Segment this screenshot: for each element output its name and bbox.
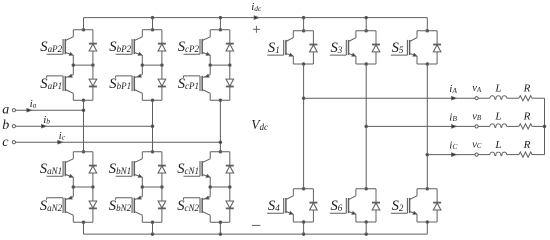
node v_C (open terminal) — [475, 153, 478, 156]
svg-text:S5: S5 — [392, 40, 404, 56]
current arrow i_c — [58, 141, 63, 144]
wire: cell SaP1 bottom branch join — [73, 99, 93, 101]
current arrow i_B — [452, 125, 457, 128]
svg-text:ic: ic — [59, 130, 66, 142]
junction on top rail at x=366.2 — [365, 16, 368, 19]
wire: leg S6 drop to bottom rail — [365, 222, 367, 234]
wire: resistor to neutral (phase A) — [532, 97, 545, 99]
wire: cell ScN2 bottom branch join — [210, 221, 230, 223]
wire: cell SbN2 bottom branch join — [142, 221, 162, 223]
diode of switch SaP1 — [89, 65, 97, 100]
junction: c N-cells mid right — [229, 186, 232, 189]
transistor SbP2 (IGBT) — [116, 30, 143, 65]
junction: phase B output tap — [365, 125, 368, 128]
transistor SbN2 (IGBT) — [116, 187, 143, 222]
wire: phase c vertical link — [219, 100, 221, 152]
node: leg b P-side bottom tee — [151, 99, 154, 102]
diode of switch SaN2 — [89, 187, 97, 222]
wire: cell S5 bottom branch join — [417, 63, 437, 65]
junction on bottom rail at x=152.5 — [151, 233, 154, 236]
svg-text:iA: iA — [449, 83, 457, 95]
svg-text:S4: S4 — [268, 198, 280, 214]
node: leg a bottom tee — [82, 221, 85, 224]
wire: phase C output line — [427, 154, 475, 156]
wire: leg c drop to bottom rail — [219, 222, 221, 234]
wire: C terminal to inductor — [478, 154, 490, 156]
transistor S6 (IGBT) — [330, 189, 356, 222]
wire: cell S4 bottom branch join — [293, 221, 313, 223]
junction: a P-cells mid left — [72, 64, 75, 67]
svg-text:iC: iC — [449, 140, 458, 152]
junction: a N-cells mid left — [72, 186, 75, 189]
svg-text:L: L — [494, 139, 501, 151]
svg-text:R: R — [523, 111, 531, 123]
svg-text:idc: idc — [251, 1, 262, 13]
label + (DC link positive) — [253, 26, 260, 33]
node: leg S3 top tee — [365, 29, 368, 32]
wire: leg S2 drop to bottom rail — [426, 222, 428, 234]
svg-text:SaP1: SaP1 — [40, 76, 62, 92]
wire: inductor to resistor (phase A) — [507, 97, 519, 99]
svg-text:vA: vA — [472, 83, 482, 94]
transistor ScN2 (IGBT) — [184, 187, 211, 222]
wire: leg S1 riser to top rail — [303, 18, 305, 31]
wire: leg S4 drop to bottom rail — [303, 222, 305, 234]
svg-text:ScN1: ScN1 — [177, 161, 199, 177]
diode of switch ScP1 — [226, 65, 234, 100]
wire: inductor to resistor (phase B) — [507, 125, 519, 127]
wire: cell ScP2 top branch split — [210, 29, 230, 31]
transistor SaN2 (IGBT) — [47, 187, 74, 222]
wire: leg c riser to top rail — [219, 18, 221, 30]
wire: leg b drop to bottom rail — [152, 222, 154, 234]
junction on bottom rail at x=220.4 — [219, 233, 222, 236]
label - (DC link negative) — [252, 224, 260, 226]
node: leg S1 bottom tee — [302, 63, 305, 66]
junction on bottom rail at x=366.2 — [365, 233, 368, 236]
svg-text:R: R — [523, 83, 531, 95]
wire: phase c input line — [16, 141, 221, 143]
wire: cell SaN1 bottom branch join — [73, 186, 93, 188]
wire: cell SaP2 top branch split — [73, 29, 93, 31]
node v_B (open terminal) — [475, 125, 478, 128]
transistor SbP1 (IGBT) — [116, 65, 143, 100]
svg-text:b: b — [2, 118, 9, 133]
wire: phase b vertical link — [152, 100, 154, 152]
junction: c N-cells mid left — [209, 186, 212, 189]
wire: cell ScP1 bottom branch join — [210, 99, 230, 101]
svg-text:S6: S6 — [331, 198, 343, 214]
node: leg S3 bottom tee — [365, 63, 368, 66]
diode of switch SbN1 — [158, 152, 166, 187]
transistor SbN1 (IGBT) — [116, 152, 143, 187]
inductor L (phase B) — [490, 124, 507, 128]
svg-text:SaP2: SaP2 — [40, 39, 62, 55]
transistor S1 (IGBT) — [267, 31, 293, 64]
wire: cell SbP2 top branch split — [142, 29, 162, 31]
junction: b P-cells mid right — [161, 64, 164, 67]
wire: cell SbP2 bottom branch join — [142, 64, 162, 66]
transistor ScP2 (IGBT) — [184, 30, 211, 65]
wire: leg a riser to top rail — [83, 18, 85, 30]
node: leg c top tee — [219, 29, 222, 32]
junction on top rail at x=220.4 — [219, 16, 222, 19]
transistor S4 (IGBT) — [267, 189, 293, 222]
node: leg S2 top tee — [426, 188, 429, 191]
node: leg S5 top tee — [426, 29, 429, 32]
node: leg S4 top tee — [302, 188, 305, 191]
wire: phase b input line — [16, 125, 153, 127]
transistor S2 (IGBT) — [391, 189, 417, 222]
wire: leg S3 riser to top rail — [365, 18, 367, 31]
current arrow i_a — [27, 109, 32, 112]
current arrow i_dc on top rail — [254, 16, 259, 19]
svg-text:SbP1: SbP1 — [109, 76, 131, 92]
svg-text:L: L — [494, 111, 501, 123]
svg-text:SbN1: SbN1 — [109, 161, 131, 177]
wire: leg a drop to bottom rail — [83, 222, 85, 234]
transistor SaP2 (IGBT) — [47, 30, 74, 65]
svg-text:ScN2: ScN2 — [177, 198, 199, 214]
wire: A terminal to inductor — [478, 97, 490, 99]
junction on top rail at x=152.5 — [151, 16, 154, 19]
wire: cell S5 top branch split — [417, 30, 437, 32]
junction: neutral / phase B — [543, 125, 546, 128]
node: leg a P-side bottom tee — [82, 99, 85, 102]
svg-text:SbP2: SbP2 — [109, 39, 131, 55]
wire: phase a input line — [16, 109, 84, 111]
resistor R (phase C) — [519, 152, 532, 157]
node: leg b top tee — [151, 29, 154, 32]
resistor R (phase A) — [519, 96, 532, 101]
inductor L (phase C) — [490, 152, 507, 156]
wire: cell S3 top branch split — [356, 30, 376, 32]
diode of switch SbN2 — [158, 187, 166, 222]
wire: cell ScN1 bottom branch join — [210, 186, 230, 188]
diode of switch SbP2 — [158, 30, 166, 65]
node: leg S2 bottom tee — [426, 221, 429, 224]
junction: b N-cells mid left — [141, 186, 144, 189]
node: leg c N-side top tee — [219, 151, 222, 154]
wire: cell ScN1 top branch split — [210, 151, 230, 153]
node v_A (open terminal) — [475, 97, 478, 100]
wire: phase A output line — [304, 97, 475, 99]
transistor ScN1 (IGBT) — [184, 152, 211, 187]
node: leg S4 bottom tee — [302, 221, 305, 224]
terminal a (input) — [12, 109, 15, 112]
wire: resistor to neutral (phase B) — [532, 125, 545, 127]
svg-text:R: R — [523, 139, 531, 151]
diode of switch S3 — [372, 31, 380, 64]
junction: phase b tap — [151, 125, 154, 128]
node: leg S6 bottom tee — [365, 221, 368, 224]
terminal c (input) — [12, 141, 15, 144]
svg-text:S1: S1 — [268, 40, 280, 56]
diode of switch SaP2 — [89, 30, 97, 65]
junction: phase A output tap — [302, 97, 305, 100]
diode of switch S4 — [309, 189, 317, 222]
svg-text:SaN1: SaN1 — [40, 161, 62, 177]
junction: c P-cells mid left — [209, 64, 212, 67]
wire: cell S1 bottom branch join — [293, 63, 313, 65]
svg-text:ia: ia — [30, 98, 37, 110]
junction: c P-cells mid right — [229, 64, 232, 67]
node: leg a top tee — [82, 29, 85, 32]
wire: cell S3 bottom branch join — [356, 63, 376, 65]
wire: load neutral vertical — [544, 98, 546, 154]
wire: cell SaN1 top branch split — [73, 151, 93, 153]
transistor ScP1 (IGBT) — [184, 65, 211, 100]
svg-text:c: c — [2, 135, 9, 150]
diode of switch S1 — [309, 31, 317, 64]
wire: cell S1 top branch split — [293, 30, 313, 32]
node: leg b N-side top tee — [151, 151, 154, 154]
svg-text:vB: vB — [472, 111, 482, 122]
wire: cell SbP1 bottom branch join — [142, 99, 162, 101]
junction: phase c tap — [219, 141, 222, 144]
junction: a P-cells mid right — [92, 64, 95, 67]
wire: positive DC rail (top) — [84, 17, 428, 19]
diode of switch ScN1 — [226, 152, 234, 187]
wire: negative DC rail (bottom) — [84, 233, 428, 235]
wire: cell SaN2 bottom branch join — [73, 221, 93, 223]
wire: inductor to resistor (phase C) — [507, 154, 519, 156]
junction: phase a tap — [82, 109, 85, 112]
svg-text:S3: S3 — [331, 40, 343, 56]
wire: cell S6 top branch split — [356, 188, 376, 190]
wire: cell S6 bottom branch join — [356, 221, 376, 223]
node: leg S1 top tee — [302, 29, 305, 32]
diode of switch SaN1 — [89, 152, 97, 187]
inductor L (phase A) — [490, 96, 507, 100]
node: leg S5 bottom tee — [426, 63, 429, 66]
wire: inverter leg 3/6 midpoint vertical — [365, 64, 367, 189]
transistor S3 (IGBT) — [330, 31, 356, 64]
wire: phase a vertical link — [83, 100, 85, 152]
wire: phase B output line — [366, 125, 475, 127]
diode of switch S5 — [433, 31, 441, 64]
wire: cell S4 top branch split — [293, 188, 313, 190]
wire: inverter leg 1/4 midpoint vertical — [303, 64, 305, 189]
wire: cell S2 top branch split — [417, 188, 437, 190]
wire: cell SbN1 bottom branch join — [142, 186, 162, 188]
terminal b (input) — [12, 125, 15, 128]
svg-text:ib: ib — [43, 114, 50, 126]
current arrow i_b — [42, 125, 47, 128]
wire: cell ScP2 bottom branch join — [210, 64, 230, 66]
node: leg b bottom tee — [151, 221, 154, 224]
node: leg c bottom tee — [219, 221, 222, 224]
svg-text:SaN2: SaN2 — [40, 198, 63, 214]
diode of switch SbP1 — [158, 65, 166, 100]
current arrow i_C — [452, 153, 457, 156]
svg-text:SbN2: SbN2 — [109, 198, 132, 214]
junction: a N-cells mid right — [92, 186, 95, 189]
wire: cell S2 bottom branch join — [417, 221, 437, 223]
svg-text:L: L — [494, 83, 501, 95]
node: leg c P-side bottom tee — [219, 99, 222, 102]
node: leg a N-side top tee — [82, 151, 85, 154]
wire: cell SbN1 top branch split — [142, 151, 162, 153]
current arrow i_A — [452, 97, 457, 100]
diode of switch ScP2 — [226, 30, 234, 65]
svg-text:ScP2: ScP2 — [178, 39, 200, 55]
diode of switch S2 — [433, 189, 441, 222]
wire: leg S5 riser to top rail — [426, 18, 428, 31]
wire: resistor to neutral (phase C) — [532, 154, 545, 156]
diode of switch S6 — [372, 189, 380, 222]
junction: phase C output tap — [426, 153, 429, 156]
junction on bottom rail at x=303.6 — [302, 233, 305, 236]
resistor R (phase B) — [519, 124, 532, 129]
wire: B terminal to inductor — [478, 125, 490, 127]
svg-text:vC: vC — [472, 140, 482, 151]
svg-text:S2: S2 — [392, 198, 404, 214]
transistor SaN1 (IGBT) — [47, 152, 74, 187]
junction on top rail at x=303.6 — [302, 16, 305, 19]
node: leg S6 top tee — [365, 188, 368, 191]
wire: cell SaP2 bottom branch join — [73, 64, 93, 66]
wire: inverter leg 5/2 midpoint vertical — [426, 64, 428, 189]
junction: b P-cells mid left — [141, 64, 144, 67]
svg-text:ScP1: ScP1 — [178, 76, 199, 92]
diode of switch ScN2 — [226, 187, 234, 222]
wire: leg b riser to top rail — [152, 18, 154, 30]
transistor S5 (IGBT) — [391, 31, 417, 64]
svg-text:a: a — [2, 103, 9, 118]
svg-text:Vdc: Vdc — [251, 117, 268, 132]
svg-text:iB: iB — [449, 111, 457, 123]
junction: b N-cells mid right — [161, 186, 164, 189]
transistor SaP1 (IGBT) — [47, 65, 74, 100]
